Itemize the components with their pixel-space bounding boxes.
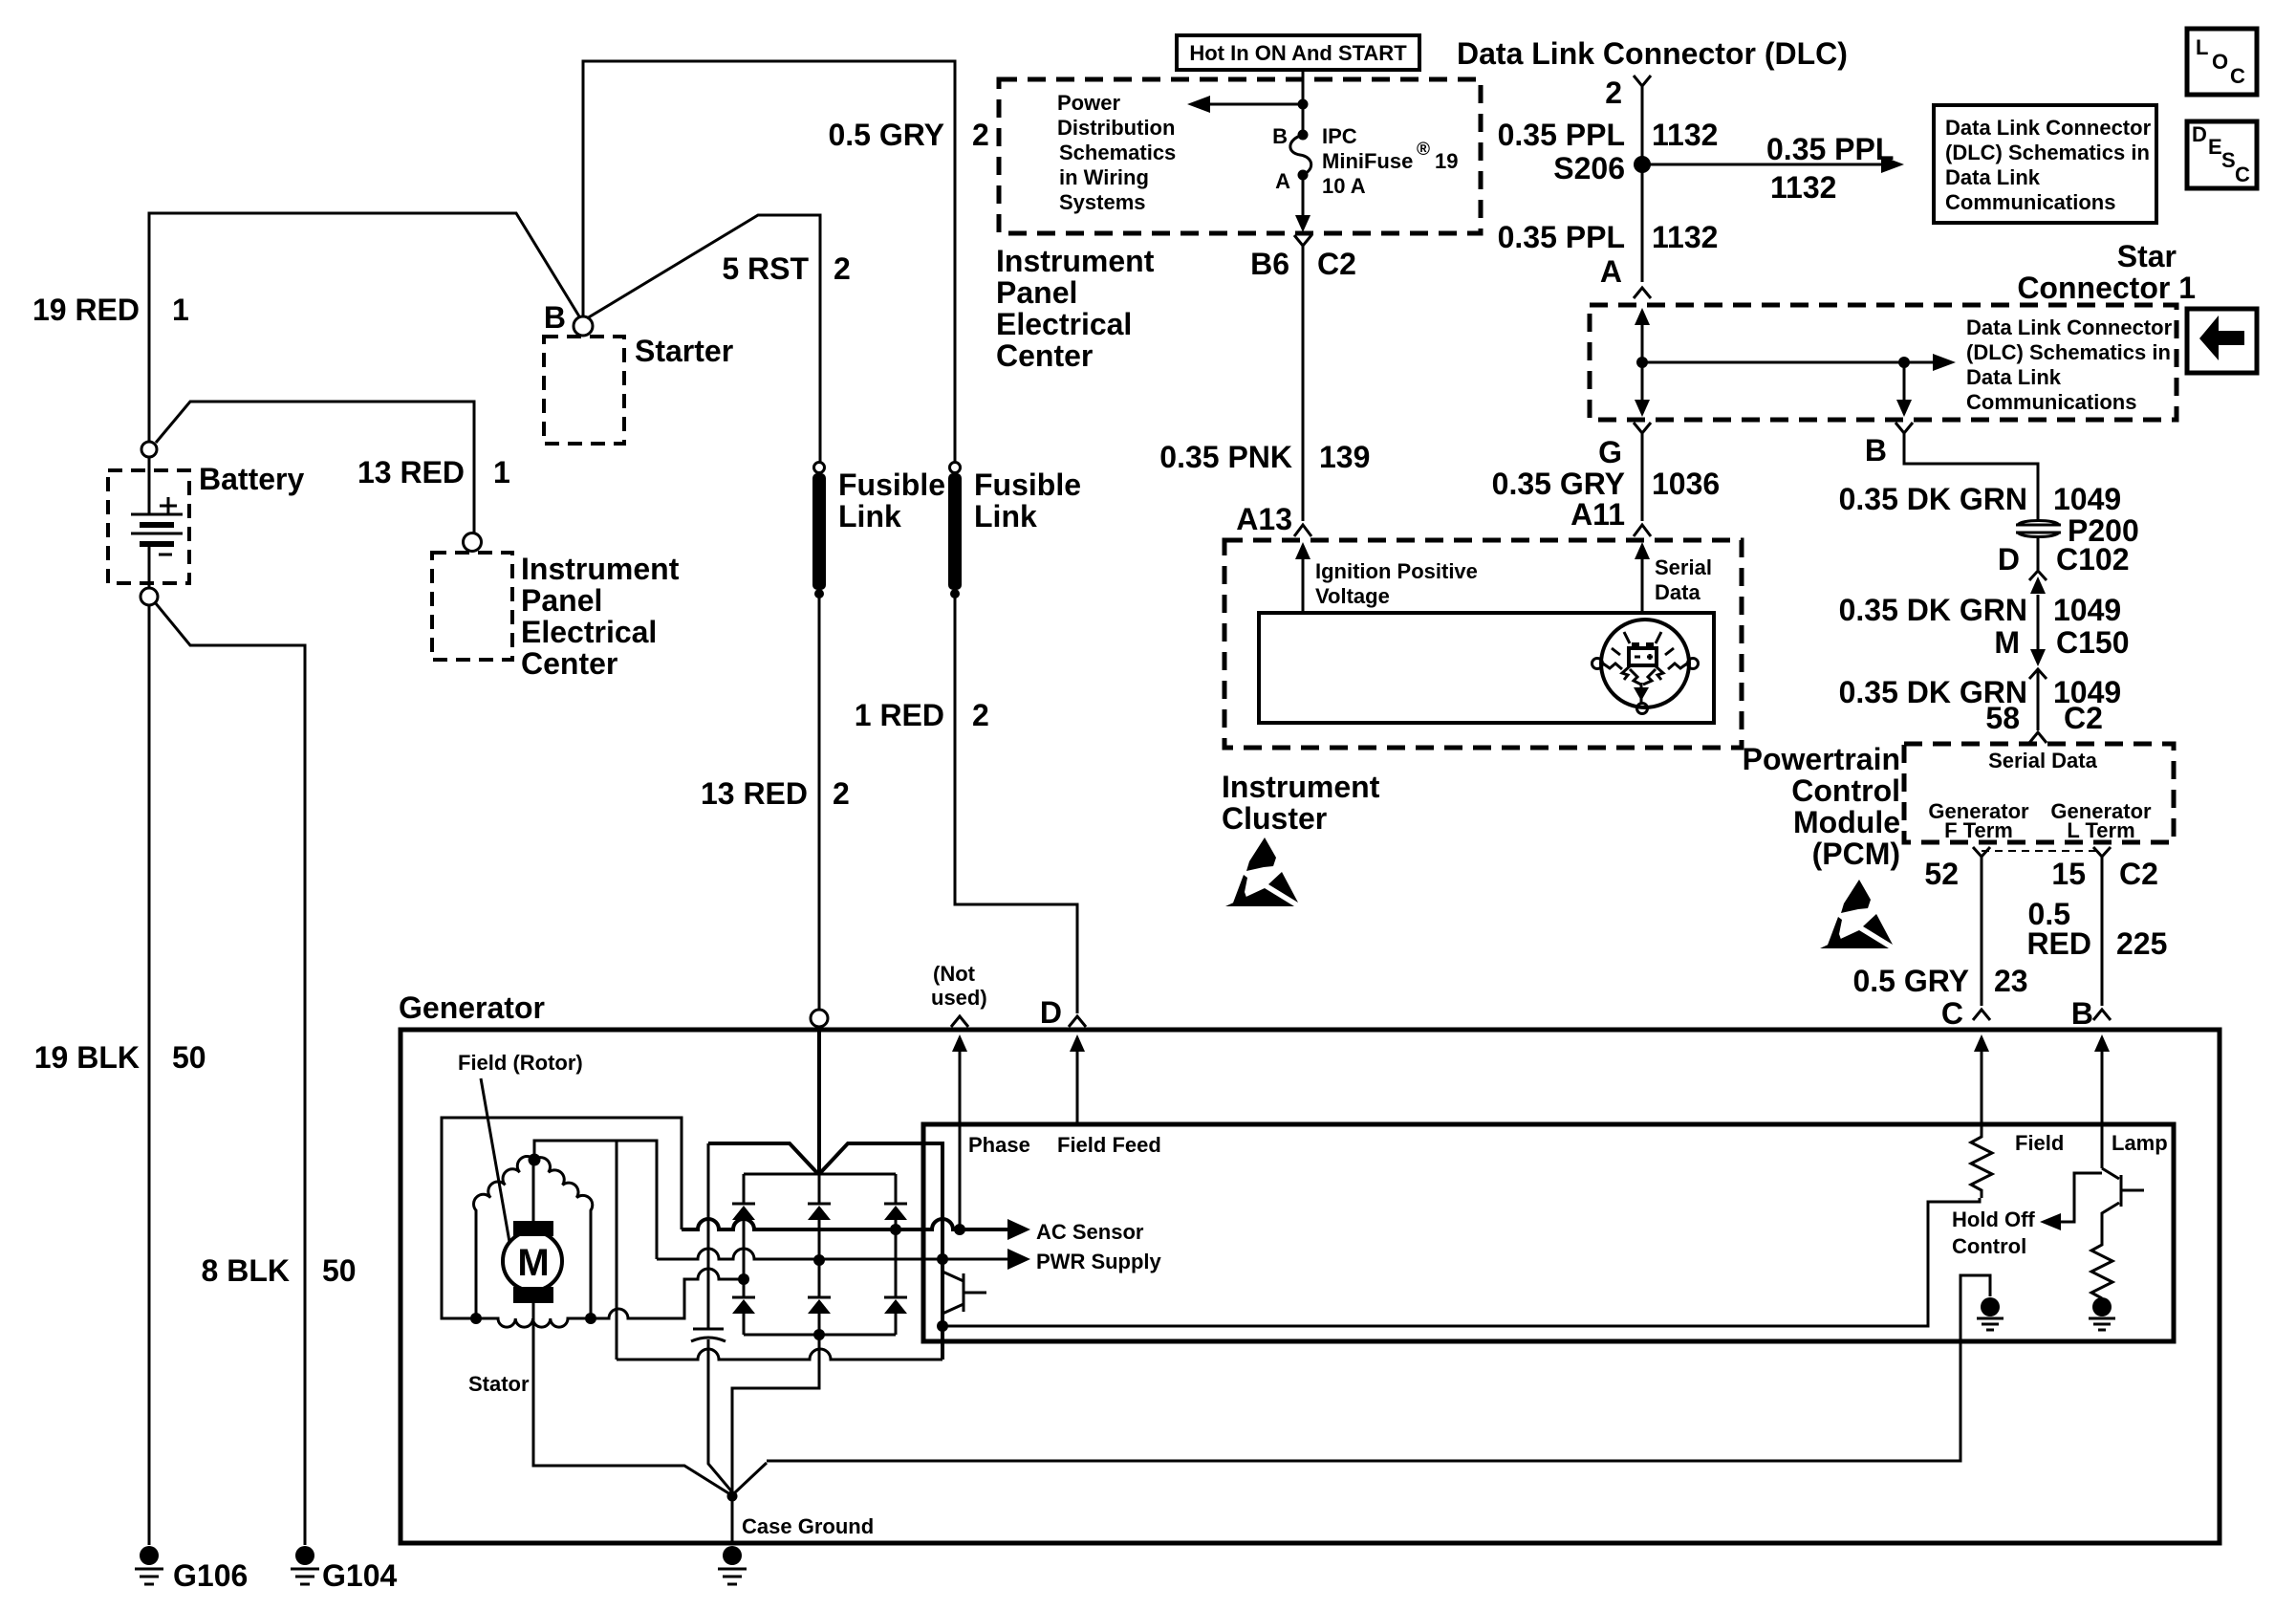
svg-text:B: B (544, 300, 566, 335)
svg-text:Communications: Communications (1945, 190, 2115, 214)
PWR supply line (phase 2) (657, 1249, 1008, 1259)
svg-text:2: 2 (972, 118, 989, 152)
diode D3 (884, 1174, 907, 1297)
stator winding right (534, 1158, 593, 1318)
label power distribution schematics (1057, 91, 1176, 214)
ground G104 (291, 1546, 319, 1584)
wire generator BAT to bridge (817, 1027, 821, 1174)
voltage regulator box (923, 1124, 2174, 1341)
wire starter B to fusible link 1 (5 RST) (587, 215, 820, 463)
connector A11 chevron (1634, 525, 1651, 536)
wire hold off return to case ground (734, 1463, 767, 1493)
fusible link 2 (948, 463, 962, 599)
capacitor (691, 1329, 726, 1341)
starter terminal B (574, 316, 593, 336)
svg-text:Star: Star (2117, 239, 2177, 273)
svg-text:13 RED: 13 RED (357, 455, 465, 490)
svg-text:B: B (1865, 433, 1887, 468)
diode D4 (732, 1279, 755, 1335)
junction dot phase3 column1 (738, 1273, 749, 1285)
hold off base arrow (2055, 1173, 2102, 1222)
svg-text:5 RST: 5 RST (722, 251, 809, 286)
wire battery negative to ground G106 (148, 605, 151, 1545)
label instrument panel electrical center (top) (996, 244, 1155, 373)
junction dot star A (1636, 357, 1648, 368)
connector B chevron (2093, 1010, 2111, 1020)
field resistor (1971, 1126, 1992, 1198)
svg-text:Schematics: Schematics (1059, 141, 1176, 164)
wire case ground stem (731, 1496, 734, 1545)
svg-text:19: 19 (1435, 149, 1458, 173)
star connector dashed box (1590, 305, 2177, 420)
svg-text:Data Link Connector: Data Link Connector (1966, 315, 2173, 339)
svg-text:Serial: Serial (1655, 555, 1712, 579)
svg-text:A11: A11 (1570, 497, 1625, 532)
connector PCM 52 chevron (1973, 847, 1990, 862)
instrument cluster dashed box (1224, 540, 1742, 748)
svg-text:10 A: 10 A (1322, 174, 1366, 198)
svg-text:0.35 PPL: 0.35 PPL (1498, 220, 1625, 254)
rotor M motor symbol (503, 1221, 562, 1303)
transistor Q2 (lamp driver) (2102, 1168, 2144, 1241)
wire rotor top to stator node (532, 1160, 535, 1221)
svg-text:8 BLK: 8 BLK (202, 1253, 290, 1288)
fusible link 1 (812, 463, 826, 599)
svg-text:Electrical: Electrical (996, 307, 1132, 341)
svg-text:0.35 GRY: 0.35 GRY (1492, 467, 1625, 501)
svg-text:Fusible: Fusible (838, 468, 945, 502)
junction dot phase2 column2 (813, 1254, 825, 1266)
hold off control wire (767, 1275, 1990, 1461)
lamp resistor (2091, 1241, 2112, 1298)
svg-text:Power: Power (1057, 91, 1120, 115)
stator node dot left (470, 1313, 482, 1324)
wire stator tap x645 (616, 1141, 618, 1360)
svg-text:Phase: Phase (968, 1133, 1030, 1157)
battery symbol (131, 457, 183, 587)
svg-text:13 RED: 13 RED (701, 776, 808, 811)
svg-text:Panel: Panel (521, 583, 602, 618)
junction dot phase1 column3 (890, 1224, 901, 1235)
svg-text:S: S (2221, 148, 2236, 172)
svg-text:Lamp: Lamp (2112, 1131, 2168, 1155)
starter dashed box (544, 337, 624, 444)
svg-text:Communications: Communications (1966, 390, 2136, 414)
wire field feed (arrow up, D) (1076, 1042, 1079, 1126)
case ground wire from bridge (732, 1335, 819, 1494)
svg-text:Instrument: Instrument (1222, 770, 1380, 804)
lamp wire from B terminal (2101, 1126, 2104, 1168)
wire into star connector (arrow up) (1641, 322, 1644, 362)
svg-text:1036: 1036 (1652, 467, 1720, 501)
svg-text:Stator: Stator (468, 1372, 530, 1396)
wire 0.35 DK GRN 1049 segment 1 (1904, 439, 2038, 521)
svg-text:C: C (2230, 64, 2245, 88)
svg-text:C: C (1941, 996, 1963, 1031)
svg-text:0.5 GRY: 0.5 GRY (828, 118, 944, 152)
connector DLC pin 2 chevron (1634, 76, 1651, 93)
svg-text:Link: Link (838, 499, 901, 533)
svg-text:C2: C2 (1317, 247, 1356, 281)
svg-text:IPC: IPC (1322, 124, 1357, 148)
diode D2 (808, 1174, 831, 1260)
wire starter B to fusible link 2 (0.5 GRY) (583, 61, 955, 463)
long stator bottom wire y1422 (617, 1349, 942, 1360)
junction dot bridge bottom (813, 1329, 825, 1340)
wire fuse output (1302, 175, 1305, 218)
connector PCM 15 chevron (2093, 847, 2111, 862)
DLC schematics box (solid) (1934, 105, 2156, 223)
wire 13 RED circuit 2 (fusible link to generator BAT) (818, 594, 821, 1011)
AC sensor line (phase 1) (682, 1219, 1008, 1229)
stator outer loop (442, 1118, 682, 1318)
svg-text:225: 225 (2116, 926, 2167, 961)
svg-text:Voltage: Voltage (1315, 584, 1390, 608)
svg-text:G106: G106 (173, 1558, 248, 1593)
svg-text:O: O (2212, 50, 2228, 74)
svg-text:(DLC) Schematics in: (DLC) Schematics in (1945, 141, 2150, 164)
svg-text:Connector 1: Connector 1 (2017, 271, 2196, 305)
svg-text:Starter: Starter (635, 334, 733, 368)
arrow to power distribution schematics (1201, 103, 1303, 106)
svg-text:Generator: Generator (399, 990, 545, 1025)
battery dashed box (108, 470, 189, 583)
stator winding left (474, 1157, 534, 1318)
Hot In ON And START box (1177, 35, 1419, 70)
connector C chevron (1973, 1010, 1990, 1020)
transistor Q1 (regulator) (942, 1272, 986, 1314)
ESD symbol (PCM) (1820, 880, 1893, 948)
diode D5 (808, 1260, 831, 1335)
svg-text:Panel: Panel (996, 275, 1077, 310)
connector D chevron (1069, 1016, 1086, 1027)
ground case (718, 1546, 747, 1584)
svg-text:Powertrain: Powertrain (1743, 742, 1900, 776)
svg-text:Case Ground: Case Ground (742, 1514, 874, 1538)
connector break C150 (down arrow + chevron) (2030, 649, 2046, 666)
svg-text:(PCM): (PCM) (1812, 837, 1900, 871)
svg-text:Distribution: Distribution (1057, 116, 1175, 140)
instrument panel electrical center dashed box (top) (999, 79, 1481, 233)
ground G106 (135, 1546, 163, 1584)
svg-text:1049: 1049 (2053, 593, 2121, 627)
svg-text:Field: Field (2015, 1131, 2064, 1155)
stator inner loop (534, 1141, 657, 1259)
svg-text:G: G (1598, 435, 1622, 469)
wire 0.35 PPL 1132 (DLC to star connector) (1641, 93, 1644, 282)
svg-text:in Wiring: in Wiring (1059, 165, 1149, 189)
label IPC MiniFuse 19 10 A (1322, 124, 1458, 198)
svg-text:C150: C150 (2056, 625, 2130, 660)
svg-text:MiniFuse: MiniFuse (1322, 149, 1413, 173)
svg-text:B: B (2071, 996, 2093, 1031)
connector break C102 (chevron + up arrow) (2029, 571, 2047, 580)
svg-text:Center: Center (521, 646, 617, 681)
connector A13 chevron (1294, 525, 1311, 536)
instrument panel electrical center dashed box (left) (432, 553, 512, 660)
svg-text:F Term: F Term (1944, 818, 2013, 842)
wire 13 RED circuit 1 (battery to IP electrical center) (156, 402, 474, 533)
terminal battery positive (141, 442, 157, 457)
rectifier bridge top rail (708, 1143, 942, 1174)
connector (not used) chevron (951, 1016, 968, 1027)
wire 19 RED circuit 1 (battery positive to starter B) (149, 213, 579, 442)
wire rectifier left bus to case ground (x741) (708, 1143, 734, 1494)
svg-text:D: D (1998, 542, 2020, 577)
svg-text:Cluster: Cluster (1222, 801, 1327, 836)
junction dot fuse feed (1298, 99, 1309, 110)
svg-text:(Not: (Not (933, 962, 976, 986)
svg-text:1132: 1132 (1652, 118, 1718, 152)
svg-text:2: 2 (833, 776, 850, 811)
label star box text (1966, 315, 2173, 414)
terminal IP electrical center feed (464, 533, 482, 552)
battery telltale gauge icon (1592, 620, 1699, 714)
wire phase (arrow up, not used) (959, 1042, 962, 1229)
svg-text:E: E (2208, 135, 2222, 159)
label Powertrain Control Module (PCM) (1743, 742, 1900, 871)
PCM dashed box (1904, 744, 2174, 842)
instrument cluster inner box (1259, 613, 1714, 723)
leader line field rotor (481, 1078, 509, 1242)
svg-text:0.35 DK GRN: 0.35 DK GRN (1839, 482, 2027, 516)
svg-text:0.35 PPL: 0.35 PPL (1766, 132, 1894, 166)
svg-text:Fusible: Fusible (974, 468, 1081, 502)
svg-text:1049: 1049 (2053, 482, 2121, 516)
svg-text:2: 2 (1605, 76, 1622, 110)
connector C2 chevron (PCM) (2029, 732, 2047, 743)
svg-text:Field (Rotor): Field (Rotor) (458, 1051, 583, 1075)
svg-text:G104: G104 (322, 1558, 397, 1593)
connector break B6 C2 (1294, 235, 1311, 250)
star bus wire (1642, 361, 1904, 364)
junction dot PWR tap (937, 1253, 948, 1265)
diode D1 (732, 1174, 755, 1279)
wire into generator L (arrow up) (2101, 1042, 2104, 1126)
inline connector P200 (2016, 521, 2061, 537)
svg-text:Systems: Systems (1059, 190, 1146, 214)
junction dot field wire (937, 1320, 948, 1332)
svg-text:A: A (1600, 254, 1622, 289)
svg-text:D: D (1040, 995, 1062, 1030)
svg-text:D: D (2192, 122, 2207, 146)
svg-text:50: 50 (172, 1040, 206, 1075)
wire 0.5 GRY 23 (PCM F term) (1981, 862, 1983, 1006)
svg-text:15: 15 (2051, 857, 2086, 891)
svg-text:®: ® (1417, 140, 1430, 160)
svg-text:RED: RED (2026, 926, 2091, 961)
connector G chevron (1634, 423, 1651, 439)
svg-text:PWR Supply: PWR Supply (1036, 1250, 1162, 1273)
svg-text:0.5 GRY: 0.5 GRY (1852, 964, 1969, 998)
terminal generator BAT (811, 1010, 828, 1027)
wire ignition positive voltage (arrow up) (1302, 555, 1305, 613)
ESD symbol (instrument cluster) (1225, 838, 1298, 906)
svg-text:2: 2 (834, 251, 851, 286)
connector B star chevron (1895, 423, 1913, 439)
svg-text:Link: Link (974, 499, 1037, 533)
svg-text:C102: C102 (2056, 542, 2130, 577)
svg-text:C2: C2 (2064, 701, 2103, 735)
svg-text:M: M (517, 1242, 549, 1284)
svg-text:0.35 PPL: 0.35 PPL (1498, 118, 1625, 152)
svg-text:Instrument: Instrument (521, 552, 680, 586)
wire 1 RED circuit 2 (fusible link to generator D) (955, 594, 1077, 1013)
svg-text:M: M (1994, 625, 2020, 660)
wire 0.5 RED 225 (PCM L term) (2101, 862, 2104, 1006)
svg-text:Hold Off: Hold Off (1952, 1207, 2035, 1231)
stator winding bottom (476, 1318, 591, 1327)
svg-text:Data: Data (1655, 580, 1700, 604)
svg-text:Data Link Connector: Data Link Connector (1945, 116, 2152, 140)
wire rotor bottom to case ground (533, 1303, 730, 1494)
junction dot phase wire (954, 1224, 965, 1235)
wire into generator F (arrow up) (1981, 1042, 1983, 1126)
svg-text:Data Link: Data Link (1945, 165, 2041, 189)
svg-text:Ignition Positive: Ignition Positive (1315, 559, 1478, 583)
svg-text:C2: C2 (2119, 857, 2158, 891)
svg-text:50: 50 (322, 1253, 357, 1288)
diode D6 (884, 1297, 907, 1335)
connector A chevron (1634, 288, 1651, 298)
svg-text:Center: Center (996, 338, 1093, 373)
svg-text:1132: 1132 (1770, 170, 1836, 205)
wire hot feed into fuse (1302, 70, 1305, 135)
svg-text:AC Sensor: AC Sensor (1036, 1220, 1144, 1244)
svg-text:Serial Data: Serial Data (1988, 749, 2097, 772)
arrow S206 to DLC schematics box (1650, 163, 1891, 166)
case ground junction (727, 1491, 738, 1502)
junction dot star branch (1898, 357, 1910, 368)
svg-text:52: 52 (1924, 857, 1959, 891)
svg-text:58: 58 (1985, 701, 2020, 735)
bridge bottom bus (744, 1334, 896, 1337)
svg-text:19 BLK: 19 BLK (34, 1040, 140, 1075)
svg-text:1: 1 (493, 455, 510, 490)
svg-text:Field Feed: Field Feed (1057, 1133, 1161, 1157)
wire serial data (arrow up) (1641, 555, 1644, 613)
svg-text:Control: Control (1952, 1234, 2026, 1258)
svg-text:Battery: Battery (199, 462, 304, 496)
svg-text:L: L (2196, 35, 2208, 59)
svg-text:1132: 1132 (1652, 220, 1718, 254)
wire star leg G (arrow down) (1641, 362, 1644, 402)
svg-text:L Term: L Term (2067, 818, 2134, 842)
wire stator phase 3 (to column 1) (591, 1269, 744, 1318)
svg-text:A13: A13 (1236, 502, 1292, 536)
terminal battery negative (141, 588, 158, 605)
field drive wire y1387 (942, 1198, 1980, 1326)
regulator sense wire x986 (848, 1143, 942, 1360)
wire 0.35 PNK 139 (1302, 250, 1305, 521)
svg-text:Instrument: Instrument (996, 244, 1155, 278)
DESC box (2187, 121, 2257, 188)
svg-text:A: A (1275, 169, 1290, 193)
svg-text:B6: B6 (1250, 247, 1289, 281)
dashed pin row (1982, 850, 2102, 852)
LOC box (2187, 29, 2257, 95)
wire 0.35 GRY 1036 (1641, 439, 1644, 521)
svg-text:23: 23 (1994, 964, 2028, 998)
svg-text:139: 139 (1319, 440, 1370, 474)
svg-text:Module: Module (1793, 805, 1900, 839)
fuse IPC MiniFuse 19 (1290, 130, 1311, 181)
svg-text:Data Link Connector (DLC): Data Link Connector (DLC) (1457, 36, 1848, 71)
wire star leg B (arrow down) (1903, 362, 1906, 402)
svg-text:S206: S206 (1553, 151, 1625, 185)
arrow box (left pointer) (2187, 309, 2257, 373)
svg-text:Data Link: Data Link (1966, 365, 2062, 389)
svg-text:used): used) (931, 986, 987, 1010)
ground lamp resistor (2089, 1297, 2115, 1330)
svg-text:Control: Control (1791, 773, 1900, 808)
generator box (401, 1030, 2220, 1543)
svg-text:Electrical: Electrical (521, 615, 657, 649)
svg-text:B: B (1272, 124, 1288, 148)
svg-text:0.35 DK GRN: 0.35 DK GRN (1839, 593, 2027, 627)
svg-text:19 RED: 19 RED (32, 293, 140, 327)
svg-text:C: C (2235, 163, 2250, 186)
bridge top bus (744, 1173, 896, 1176)
stator node dot right (585, 1313, 596, 1324)
svg-text:Hot In ON And START: Hot In ON And START (1189, 41, 1407, 65)
svg-text:(DLC) Schematics in: (DLC) Schematics in (1966, 340, 2171, 364)
splice S206 (1634, 156, 1651, 173)
svg-text:1: 1 (172, 293, 189, 327)
wire battery negative to ground G104 (155, 602, 305, 1545)
wire to C102 (2037, 537, 2040, 570)
arrow continuation to text (1904, 361, 1942, 364)
svg-text:0.35 PNK: 0.35 PNK (1159, 440, 1292, 474)
ground hold off (1977, 1297, 2004, 1330)
svg-text:1 RED: 1 RED (855, 698, 944, 732)
stator node (529, 1154, 541, 1166)
svg-text:2: 2 (972, 698, 989, 732)
